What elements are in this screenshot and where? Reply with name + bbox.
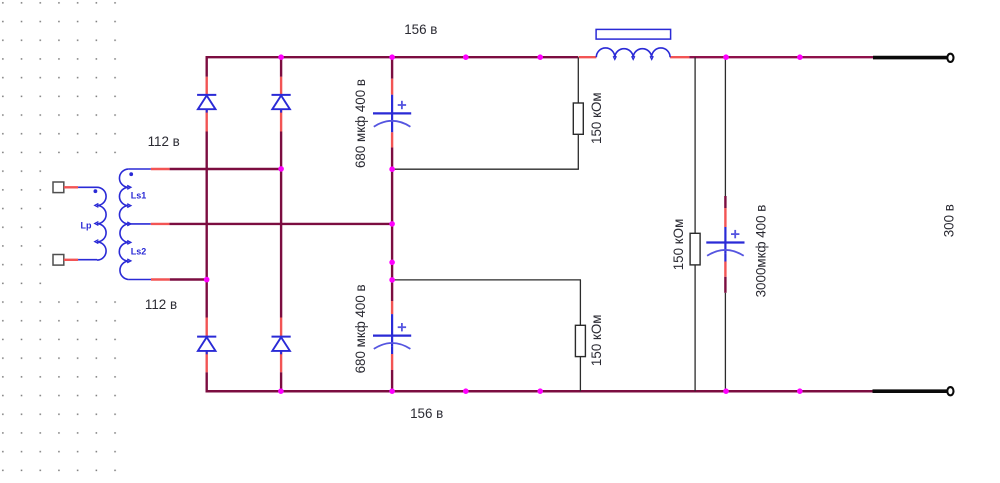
junction bottom rail x=281 xyxy=(278,388,284,394)
winding Lp xyxy=(78,186,97,188)
diode D2 xyxy=(272,94,291,96)
junction center tap xyxy=(389,221,395,227)
wire top output lead (black thick) xyxy=(873,56,947,60)
wire R2 branch (black thin) xyxy=(392,279,581,281)
terminal pad primary bottom xyxy=(53,255,64,266)
capacitor C2 680 mkf xyxy=(373,335,411,337)
wire Ls2 bottom to bridge xyxy=(170,278,207,280)
winding Ls2 xyxy=(119,224,128,280)
diode D1 xyxy=(197,94,216,96)
wire R1 branch (black thin) xyxy=(577,57,579,103)
svg-text:680 мкф 400 в: 680 мкф 400 в xyxy=(353,79,368,168)
lead of C2 (blue) xyxy=(391,314,393,347)
pin lead primary bottom (red) xyxy=(64,259,78,261)
resistor R2 150 kOm xyxy=(575,325,585,356)
junction top rail x=800 xyxy=(797,54,803,60)
junction bottom rail x=800 xyxy=(797,388,803,394)
junction top rail x=281 xyxy=(278,54,284,60)
pin lead primary top (red) xyxy=(64,186,78,188)
pin leads of D3 (red) xyxy=(205,318,207,338)
svg-text:156 в: 156 в xyxy=(404,22,437,37)
pin leads of C1 (red) xyxy=(391,79,393,95)
terminal output bottom xyxy=(947,387,953,395)
resistor R3 150 kOm xyxy=(690,233,700,265)
svg-text:112 в: 112 в xyxy=(145,297,177,312)
polarity dot Lp xyxy=(94,189,98,193)
pin lead Ls2 bottom (red) xyxy=(151,278,170,280)
pin lead Ls1 top (red) xyxy=(151,168,170,170)
terminal pad primary top xyxy=(53,182,64,193)
svg-text:3000мкф 400 в: 3000мкф 400 в xyxy=(753,205,768,298)
svg-text:300 в: 300 в xyxy=(942,204,957,237)
capacitor C1 680 mkf xyxy=(373,112,411,114)
wire vertical branch x=392 (maroon segments) xyxy=(391,58,393,79)
pin leads of C2 (red) xyxy=(391,301,393,314)
wire bottom rail (maroon) xyxy=(206,390,873,393)
wire Ls1 top to bridge xyxy=(170,168,282,170)
svg-text:150 кОм: 150 кОм xyxy=(671,219,686,271)
junction C2 top a xyxy=(389,260,395,266)
svg-text:150 кОм: 150 кОм xyxy=(589,315,604,367)
junction bottom rail x=540 xyxy=(537,388,543,394)
svg-text:156 в: 156 в xyxy=(410,406,443,421)
winding Ls1 xyxy=(129,168,151,170)
junction Ls2/D1 branch xyxy=(204,277,210,283)
junction C2 top / R2 xyxy=(389,277,395,283)
pin leads of C3 (red) xyxy=(724,208,726,227)
junction C1 bottom / R1 xyxy=(389,166,395,172)
capacitor C3 3000 mkf xyxy=(706,241,744,243)
junction bottom rail x=466 xyxy=(463,388,469,394)
wire vertical branch x=281 (maroon segments) xyxy=(280,56,282,77)
pin leads of D4 (red) xyxy=(280,318,282,338)
diode D3 xyxy=(197,336,216,338)
svg-text:112 в: 112 в xyxy=(148,134,180,149)
svg-text:150 кОм: 150 кОм xyxy=(589,92,604,144)
pin lead center tap (red) xyxy=(151,223,170,225)
polarity dot Ls1 xyxy=(129,172,133,176)
inductor L1 core bar xyxy=(596,29,671,39)
inductor L1 winding xyxy=(596,48,670,57)
terminal output top xyxy=(947,54,953,62)
junction bottom rail x=726 (C3) xyxy=(723,388,729,394)
wire R3 branch (black thin) xyxy=(694,57,696,233)
junction top rail x=540 xyxy=(537,54,543,60)
pin leads of choke L1 (red) xyxy=(579,56,596,58)
svg-text:Lp: Lp xyxy=(81,220,92,230)
svg-text:Ls1: Ls1 xyxy=(131,190,147,200)
resistor R1 150 kOm xyxy=(573,103,583,134)
wire top rail left (maroon) xyxy=(206,56,579,58)
wire vertical branch x=207 (maroon segments) xyxy=(205,56,207,77)
svg-text:Ls2: Ls2 xyxy=(131,247,147,257)
pin leads of D1 (red) xyxy=(205,77,207,95)
wire C3 branch (black thin + maroon) xyxy=(724,57,726,196)
wire bottom output lead (black thick) xyxy=(873,389,948,393)
svg-text:680 мкф 400 в: 680 мкф 400 в xyxy=(353,284,368,373)
lead of C3 (blue) xyxy=(724,227,726,254)
junction bottom rail x=392 xyxy=(389,388,395,394)
wire center tap to C branch xyxy=(170,223,393,225)
junction top rail x=392 xyxy=(389,54,395,60)
wire top rail right (maroon) xyxy=(689,56,873,58)
junction top rail x=726 (C3) xyxy=(723,54,729,60)
junction Ls1/D2 branch xyxy=(278,166,284,172)
diode D4 xyxy=(272,336,291,338)
junction top rail x=466 xyxy=(463,54,469,60)
lead of C1 (blue) xyxy=(391,95,393,125)
pin leads of D2 (red) xyxy=(280,77,282,95)
